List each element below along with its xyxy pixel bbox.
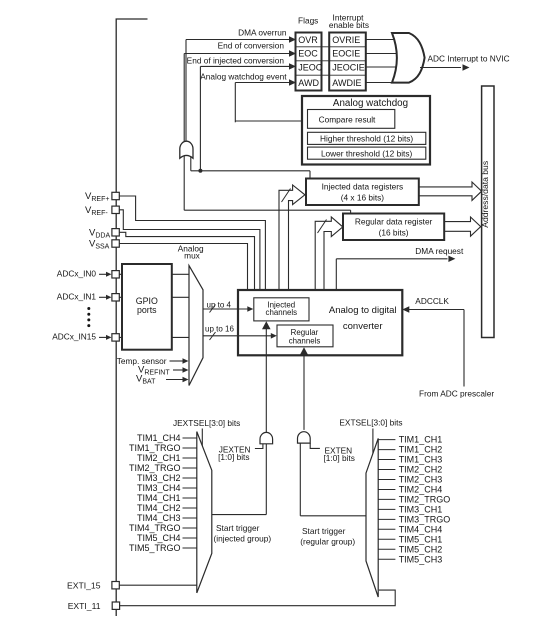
wire+label trigger TIM5_TRGO (injected) <box>183 547 197 549</box>
svg-text:Analog watchdog event: Analog watchdog event <box>200 71 287 81</box>
svg-text:DMA request: DMA request <box>415 246 464 256</box>
wire: EXTSEL select into mux <box>372 429 374 454</box>
pad ADCx_IN1 <box>112 294 119 301</box>
wire+label trigger TIM3_TRGO (regular) <box>378 518 395 520</box>
interrupt enable bits box <box>329 33 366 91</box>
and-gate EXTEN <box>298 432 311 443</box>
pad EXTI_11 <box>112 602 119 609</box>
injected channels box <box>254 298 309 321</box>
wire: DMA overrun (OVR) from OR gate up to flags <box>185 40 187 143</box>
svg-text:TIM2_CH4: TIM2_CH4 <box>399 485 443 495</box>
injected data registers box <box>306 179 419 206</box>
regular channels box <box>277 325 333 347</box>
wire: VREF+ net <box>119 196 265 290</box>
svg-text:JEOCIE: JEOCIE <box>332 62 365 72</box>
svg-text:TIM3_CH1: TIM3_CH1 <box>399 505 443 515</box>
wire: Analog watchdog event to flags <box>234 83 236 123</box>
svg-text:EOC: EOC <box>298 48 318 58</box>
wire: JEOC net horizontal into gate + to injected data registers <box>190 157 192 171</box>
block arrow: injected data registers to address bus <box>419 182 482 200</box>
wire: End of injected conversion (JEOC) vertical + to flags <box>199 66 201 170</box>
svg-text:ADCx_IN15: ADCx_IN15 <box>52 331 96 341</box>
svg-text:(4 x 16 bits): (4 x 16 bits) <box>341 192 385 202</box>
svg-text:EXTI_15: EXTI_15 <box>67 580 101 590</box>
block arrow: injected channels to injected data registers <box>279 185 305 297</box>
wire+label trigger TIM4_CH4 (regular) <box>378 528 395 530</box>
wire: EXTI_15 to injected mux <box>119 584 197 586</box>
svg-text:TIM1_CH2: TIM1_CH2 <box>399 445 443 455</box>
lower threshold box <box>308 147 426 159</box>
wire+label trigger TIM1_CH4 (injected) <box>183 437 197 439</box>
svg-text:TIM2_CH3: TIM2_CH3 <box>399 475 443 485</box>
svg-text:Start trigger: Start trigger <box>216 523 260 533</box>
pad VREF- <box>112 206 119 213</box>
wire+label trigger TIM3_CH4 (injected) <box>183 487 197 489</box>
wire: VDDA net <box>119 232 255 290</box>
wire+label trigger TIM2_TRGO (injected) <box>183 467 197 469</box>
pad ADCx_IN0 <box>112 271 119 278</box>
svg-text:enable bits: enable bits <box>329 20 369 30</box>
wires: ADC input channels through GPIO to mux <box>119 273 189 275</box>
svg-text:ports: ports <box>137 305 157 315</box>
svg-text:TIM1_CH1: TIM1_CH1 <box>399 435 443 445</box>
compare result box <box>308 110 395 129</box>
regular trigger mux trapezoid <box>366 438 378 597</box>
wire+label trigger TIM5_CH4 (injected) <box>183 537 197 539</box>
wire: top-left frame corner and left bus line <box>116 19 147 616</box>
wire+label trigger TIM1_CH1 (regular) <box>378 439 395 441</box>
analog mux trapezoid <box>189 266 203 386</box>
wire: injected mux output to JEXTEN gate <box>212 514 266 516</box>
svg-text:(16 bits): (16 bits) <box>379 228 409 238</box>
svg-text:channels: channels <box>289 337 321 346</box>
wire: up to 16 (regular inputs) <box>203 335 272 337</box>
svg-text:EXTSEL[3:0] bits: EXTSEL[3:0] bits <box>339 417 402 427</box>
wire+label trigger TIM2_TRGO (regular) <box>378 498 395 500</box>
address/data bus bar <box>482 86 494 338</box>
svg-text:AWD: AWD <box>298 78 319 88</box>
wire+label trigger TIM5_CH2 (regular) <box>378 548 395 550</box>
wire: regular mux output to EXTEN gate <box>300 515 366 517</box>
bus-width slash on injected arrow <box>282 189 291 203</box>
svg-text:EXTI_11: EXTI_11 <box>68 601 101 611</box>
svg-text:converter: converter <box>343 321 383 332</box>
regular data register box <box>343 214 444 241</box>
svg-text:TIM4_CH2: TIM4_CH2 <box>137 503 181 513</box>
wire+label trigger TIM5_CH3 (regular) <box>378 558 395 560</box>
svg-text:JEOC: JEOC <box>298 62 323 72</box>
svg-text:TIM1_CH4: TIM1_CH4 <box>137 433 181 443</box>
svg-text:channels: channels <box>266 308 298 317</box>
svg-text:TIM4_TRGO: TIM4_TRGO <box>129 523 181 533</box>
bus-width slash on regular arrow <box>318 220 327 234</box>
svg-text:[1:0] bits: [1:0] bits <box>324 453 355 463</box>
svg-text:Compare result: Compare result <box>319 114 376 124</box>
wire: compare result to AWD flag <box>235 120 307 122</box>
and-gate JEXTEN <box>260 432 273 443</box>
block arrow: regular channels to regular data register <box>315 217 343 325</box>
svg-text:TIM1_CH3: TIM1_CH3 <box>399 455 443 465</box>
pad ADCx_IN15 <box>112 334 119 341</box>
wire: EXTEN gate output to regular channels <box>303 354 305 430</box>
wire+label trigger TIM4_TRGO (injected) <box>183 527 197 529</box>
wire: VSSA net <box>119 244 248 291</box>
svg-text:Address/data bus: Address/data bus <box>480 161 490 228</box>
svg-text:EOCIE: EOCIE <box>332 48 360 58</box>
wire: EXTEN bits into gate <box>310 443 320 448</box>
svg-text:Higher threshold (12 bits): Higher threshold (12 bits) <box>320 134 413 144</box>
svg-text:AWDIE: AWDIE <box>332 78 361 88</box>
svg-text:TIM2_TRGO: TIM2_TRGO <box>129 463 181 473</box>
wire: JEXTSEL select into mux <box>201 429 203 457</box>
wire: EXTI_11 to regular mux <box>119 590 395 606</box>
table row separators <box>296 46 366 48</box>
svg-text:ADCx_IN1: ADCx_IN1 <box>57 291 97 301</box>
svg-text:up to 4: up to 4 <box>207 300 232 309</box>
svg-text:TIM4_CH4: TIM4_CH4 <box>399 524 443 534</box>
svg-text:From ADC prescaler: From ADC prescaler <box>419 389 494 399</box>
svg-text:mux: mux <box>184 251 201 261</box>
svg-text:DMA overrun: DMA overrun <box>238 28 287 38</box>
wire+label trigger TIM4_CH3 (injected) <box>183 517 197 519</box>
svg-text:(regular group): (regular group) <box>300 536 355 546</box>
svg-text:TIM3_TRGO: TIM3_TRGO <box>399 515 451 525</box>
svg-text:TIM2_CH2: TIM2_CH2 <box>399 465 443 475</box>
svg-text:ADC Interrupt to NVIC: ADC Interrupt to NVIC <box>428 54 510 64</box>
wire+label trigger TIM4_CH1 (injected) <box>183 497 197 499</box>
svg-text:Flags: Flags <box>298 15 318 25</box>
svg-text:TIM2_TRGO: TIM2_TRGO <box>399 495 451 505</box>
wire+label trigger TIM2_CH3 (regular) <box>378 479 395 481</box>
pad VREF+ <box>112 192 119 199</box>
svg-text:TIM5_CH3: TIM5_CH3 <box>399 554 443 564</box>
svg-text:TIM5_CH2: TIM5_CH2 <box>399 544 443 554</box>
wire+label trigger TIM2_CH4 (regular) <box>378 489 395 491</box>
svg-text:OVR: OVR <box>298 35 318 45</box>
injected trigger mux trapezoid <box>197 432 212 593</box>
svg-text:TIM3_CH4: TIM3_CH4 <box>137 483 181 493</box>
wire: DMA request <box>335 259 337 290</box>
wire: VREF- net <box>119 210 260 290</box>
wire: JEXTEN gate output to injected channels <box>265 326 267 433</box>
svg-text:TIM1_TRGO: TIM1_TRGO <box>129 443 181 453</box>
svg-text:TIM4_CH1: TIM4_CH1 <box>137 493 181 503</box>
svg-text:up to 16: up to 16 <box>205 325 234 334</box>
svg-text:TIM2_CH1: TIM2_CH1 <box>137 453 181 463</box>
pad VSSA <box>112 240 119 247</box>
svg-text:TIM4_CH3: TIM4_CH3 <box>137 513 181 523</box>
wire: ADCCLK from prescaler <box>463 310 465 387</box>
wire+label trigger TIM1_TRGO (injected) <box>183 447 197 449</box>
node: JEOC junction dot <box>198 169 202 173</box>
svg-text:TIM5_TRGO: TIM5_TRGO <box>129 543 181 553</box>
flags register box <box>296 33 322 91</box>
analog watchdog box <box>302 96 430 165</box>
svg-text:Regular data register: Regular data register <box>355 217 433 227</box>
analog to digital converter box <box>238 290 402 355</box>
pad VDDA <box>112 229 119 236</box>
wire: up to 4 (injected inputs) <box>203 308 248 310</box>
svg-text:Injected data registers: Injected data registers <box>322 181 404 191</box>
svg-text:TIM5_CH4: TIM5_CH4 <box>137 533 181 543</box>
svg-text:Analog to digital: Analog to digital <box>329 305 397 316</box>
block arrow: regular data register to address bus <box>444 217 481 236</box>
svg-text:TIM5_CH1: TIM5_CH1 <box>399 534 443 544</box>
wire+label trigger TIM1_CH3 (regular) <box>378 459 395 461</box>
wire+label trigger TIM1_CH2 (regular) <box>378 449 395 451</box>
wire: End of conversion (EOC) net vertical + to flags <box>183 54 185 211</box>
svg-text:Start trigger: Start trigger <box>302 526 346 536</box>
svg-text:ADCCLK: ADCCLK <box>415 296 449 306</box>
wire+label trigger TIM2_CH1 (injected) <box>183 457 197 459</box>
svg-text:[1:0] bits: [1:0] bits <box>218 452 249 462</box>
svg-text:(injected group): (injected group) <box>214 533 272 543</box>
pad EXTI_15 <box>112 582 119 589</box>
svg-text:ADCx_IN0: ADCx_IN0 <box>57 268 97 278</box>
wire: JEXTEN bits into gate <box>255 444 263 449</box>
svg-text:End of conversion: End of conversion <box>218 41 285 51</box>
svg-text:Analog watchdog: Analog watchdog <box>333 98 408 109</box>
wire: ADC interrupt output <box>420 67 461 69</box>
svg-text:JEXTSEL[3:0] bits: JEXTSEL[3:0] bits <box>173 418 240 428</box>
svg-text:End of injected conversion: End of injected conversion <box>187 56 285 66</box>
higher threshold box <box>308 132 426 144</box>
ellipsis dots between channels <box>87 307 90 310</box>
gpio ports box <box>122 264 172 350</box>
wire+label trigger TIM3_CH2 (injected) <box>183 477 197 479</box>
or-gate: interrupt OR to NVIC <box>392 33 425 83</box>
wire+label trigger TIM4_CH2 (injected) <box>183 507 197 509</box>
wire+label trigger TIM2_CH2 (regular) <box>378 469 395 471</box>
svg-text:Lower threshold (12 bits): Lower threshold (12 bits) <box>321 149 413 159</box>
svg-text:TIM3_CH2: TIM3_CH2 <box>137 473 181 483</box>
wire+label trigger TIM3_CH1 (regular) <box>378 508 395 510</box>
wire+label trigger TIM5_CH1 (regular) <box>378 538 395 540</box>
wire: EOC net horizontal to regular data register <box>184 209 350 211</box>
svg-text:OVRIE: OVRIE <box>332 35 360 45</box>
wires: enable bits to OR gate <box>366 39 397 41</box>
or-gate U1: EOC+JEOC overrun gate <box>180 141 193 158</box>
